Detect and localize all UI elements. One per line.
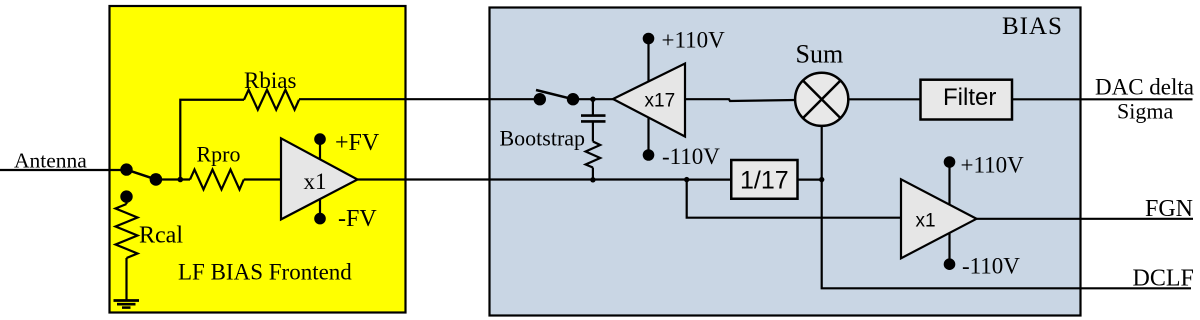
- node C (bootstrap bottom junction): [590, 177, 595, 182]
- svg-text:Sum: Sum: [796, 40, 844, 69]
- svg-text:-FV: -FV: [338, 206, 377, 232]
- node B (bootstrap cap tap): [590, 97, 595, 102]
- node D (divider output junction): [819, 177, 824, 182]
- svg-text:FGN: FGN: [1145, 196, 1193, 222]
- svg-text:x17: x17: [645, 91, 676, 112]
- wire: node D down and right to DCLF: [822, 180, 1191, 288]
- svg-text:BIAS: BIAS: [1002, 13, 1063, 40]
- wire: 1/17 to node D: [798, 179, 822, 181]
- supply -FV dot (U1): [314, 213, 326, 225]
- wire: Rbias to bootstrap switch: [299, 98, 540, 100]
- svg-text:Antenna: Antenna: [14, 148, 87, 172]
- svg-text:-110V: -110V: [662, 144, 720, 169]
- svg-text:Filter: Filter: [943, 84, 996, 111]
- node A (feedback tap junction): [178, 177, 184, 183]
- resistor R bootstrap: lead + zigzag: [592, 121, 594, 141]
- svg-text:DAC delta: DAC delta: [1095, 75, 1194, 100]
- frontend box LF BIAS Frontend: [110, 6, 406, 313]
- svg-text:+FV: +FV: [335, 130, 380, 156]
- supply line U3: [948, 162, 950, 264]
- wire: x17 output to Sum (with jog): [685, 99, 796, 101]
- ground: [114, 299, 140, 302]
- supply +110V dot (U2): [643, 33, 655, 45]
- supply line U2 (+110V to -110V vertical): [647, 39, 649, 156]
- wire: node E to divider 1/17: [687, 179, 732, 181]
- svg-text:Rbias: Rbias: [244, 68, 296, 93]
- supply -110V dot (U2): [643, 149, 655, 161]
- op-amp U1 x1 frontend body: [281, 138, 358, 219]
- wire: U3 output FGN: [977, 218, 1194, 220]
- switch S2 right dot: [567, 93, 579, 105]
- switch S1 antenna select: arm: [127, 170, 156, 180]
- wire: Filter to DAC output: [1012, 98, 1193, 100]
- svg-text:+110V: +110V: [961, 153, 1025, 178]
- svg-text:DCLF: DCLF: [1133, 266, 1194, 292]
- wire: Sum to Filter: [848, 98, 920, 100]
- svg-text:LF BIAS Frontend: LF BIAS Frontend: [178, 260, 352, 285]
- op-amp U2 x17: [613, 64, 685, 137]
- svg-text:x1: x1: [304, 169, 327, 194]
- svg-text:Rcal: Rcal: [139, 223, 183, 249]
- supply +110V dot (U3): [944, 156, 956, 168]
- switch S1 throw dot (main): [150, 173, 163, 186]
- switch S2 bootstrap: arm: [536, 90, 573, 99]
- main line: frontend op-amp output to node E: [358, 178, 687, 180]
- wire: Sum down to node D: [821, 126, 823, 180]
- wire: node A up to Rbias: [180, 100, 244, 180]
- wire: switch to x17 input: [573, 98, 614, 100]
- svg-text:x1: x1: [916, 210, 936, 231]
- wire: antenna input: [0, 169, 127, 171]
- op-amp U3 x1: [901, 179, 977, 258]
- divider block 1/17: [731, 160, 797, 199]
- svg-text:-110V: -110V: [962, 253, 1020, 278]
- wire: switch to Rpro: [156, 178, 190, 180]
- svg-text:Rpro: Rpro: [197, 142, 241, 167]
- wire: Rcal branch down from throw dot: [125, 197, 127, 204]
- svg-text:+110V: +110V: [662, 27, 726, 52]
- op-amp U1 x1 frontend: supply line: [319, 139, 321, 219]
- svg-text:Sigma: Sigma: [1117, 99, 1173, 124]
- svg-text:1/17: 1/17: [740, 166, 789, 194]
- filter block: [921, 80, 1013, 120]
- resistor Rcal: [116, 204, 138, 258]
- wire: node E down to U3 input: [687, 180, 901, 218]
- switch S1 throw dot (Rcal): [120, 190, 132, 202]
- resistor Rpro: [190, 170, 244, 190]
- mixer Sum: [795, 73, 848, 126]
- wire: Rcal to ground: [125, 258, 127, 300]
- capacitor C1 bootstrap: top lead: [592, 99, 594, 114]
- switch S1 pole dot: [120, 163, 132, 175]
- resistor Rbias: [244, 90, 299, 110]
- svg-text:Bootstrap: Bootstrap: [500, 126, 586, 151]
- wire: Rpro to op-amp input: [244, 178, 281, 180]
- supply -110V dot (U3): [944, 258, 956, 270]
- switch S2 left dot: [534, 93, 546, 105]
- node E (x1 tap junction): [684, 177, 689, 182]
- BIAS box: [490, 8, 1081, 316]
- supply +FV dot (U1): [314, 133, 326, 145]
